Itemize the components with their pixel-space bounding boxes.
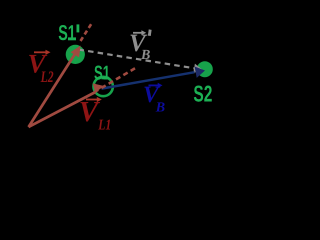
- arrow over VB label: [149, 84, 159, 86]
- svg-text:L1: L1: [97, 118, 111, 134]
- vector VB blue line S1 to S2: [102, 72, 195, 88]
- arrow over VL1 label: [86, 99, 98, 101]
- svg-text:B: B: [155, 101, 165, 116]
- arrow over VL2 label: [34, 51, 46, 53]
- svg-text:S1: S1: [58, 21, 76, 45]
- prime mark of VB': [148, 29, 152, 36]
- source dot S1' (green filled): [66, 45, 85, 64]
- vector VB' dashed gray line S1' to S2: [77, 49, 195, 68]
- arrow over VB' label: [133, 32, 142, 34]
- svg-text:L2: L2: [40, 69, 54, 86]
- vector VB' arrowhead (gray): [193, 64, 202, 74]
- vector VL2 arrowhead (dark red): [71, 46, 81, 58]
- source dot S2 (green filled): [197, 61, 213, 77]
- serif foot of digit 1 in S1: [101, 77, 108, 80]
- serif foot of digit 1 in S1': [68, 37, 76, 40]
- svg-text:S2: S2: [193, 80, 212, 106]
- vector VL2 line vertex to S1': [29, 52, 77, 128]
- dashed extension of VL1 beyond S1: [94, 68, 136, 92]
- svg-text:S1: S1: [94, 62, 110, 84]
- svg-text:B: B: [140, 48, 150, 63]
- vector VB arrowhead (navy): [195, 67, 205, 78]
- dashed extension of VL2 beyond S1': [81, 22, 93, 41]
- source ring S1 (green open circle): [94, 77, 113, 96]
- prime mark of S1': [77, 24, 80, 32]
- vector VL1 arrowhead (dark red): [93, 83, 104, 92]
- vector VL1 line vertex to S1: [29, 92, 96, 127]
